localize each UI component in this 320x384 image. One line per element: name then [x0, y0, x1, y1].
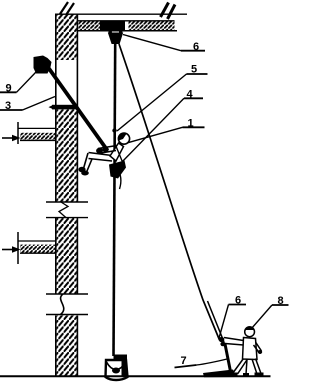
climber torso: [110, 143, 124, 161]
label 6 bottom: [219, 295, 246, 339]
working rope vertical: [114, 44, 116, 356]
bucket: [106, 355, 128, 381]
floor slab 2 bottom line: [20, 252, 56, 254]
climber arms: [96, 146, 117, 154]
label 7: [175, 355, 197, 368]
anchor block: [34, 56, 52, 74]
label 1: [128, 118, 205, 143]
rope knot above head: [112, 128, 116, 132]
ceiling slab band top edge: [77, 20, 174, 22]
pulley hanger: [108, 30, 123, 45]
climber head: [118, 133, 129, 144]
hauling rope diagonal: [119, 44, 220, 340]
label 4: [121, 89, 204, 164]
wall mid break symbol: [46, 202, 88, 218]
floor slab 2 arrow: [2, 246, 21, 252]
climber seat sling tail: [118, 168, 121, 189]
floor slab 1 tick: [17, 122, 19, 144]
hauling rope slack curve: [196, 344, 236, 377]
floor slab 2 top line: [18, 240, 56, 242]
wall column hatched segments: [57, 14, 77, 376]
beam clamp black block: [100, 21, 125, 31]
climber seat board: [109, 145, 126, 179]
wall lower break symbol: [46, 294, 88, 315]
ground worker head: [245, 326, 255, 337]
climber legs: [78, 153, 112, 176]
ground worker right arm: [254, 342, 263, 354]
floor slab 1 bottom line: [20, 139, 56, 141]
wall right edge line: [76, 14, 78, 376]
floor slab 1 arrow: [2, 135, 21, 141]
wall top break symbol: [60, 2, 74, 15]
ground worker legs: [229, 359, 264, 377]
ground worker left arm: [219, 337, 244, 346]
wall horizontal black bar at y107: [52, 105, 78, 110]
ceiling slab band bottom edge: [77, 30, 177, 32]
floor slab 2 band: [20, 245, 56, 253]
ground line: [0, 375, 271, 377]
safety rope thick diagonal: [45, 63, 108, 151]
ceiling slab hatch left: [79, 21, 101, 30]
ceiling top line: [57, 13, 187, 15]
wall left edge line: [55, 14, 57, 376]
ceiling slab right break: [161, 3, 176, 20]
ground worker torso: [243, 338, 258, 360]
floor slab 1 top line: [18, 127, 56, 129]
label 6 top right: [123, 35, 205, 54]
label 3: [0, 97, 55, 113]
label 8: [252, 295, 289, 329]
floor slab 1 band: [20, 133, 56, 140]
svg-text:7: 7: [181, 355, 187, 367]
floor slab 2 tick: [17, 232, 19, 264]
ceiling slab hatch right: [129, 21, 175, 30]
label 9: [0, 72, 36, 95]
label 5: [117, 64, 208, 132]
